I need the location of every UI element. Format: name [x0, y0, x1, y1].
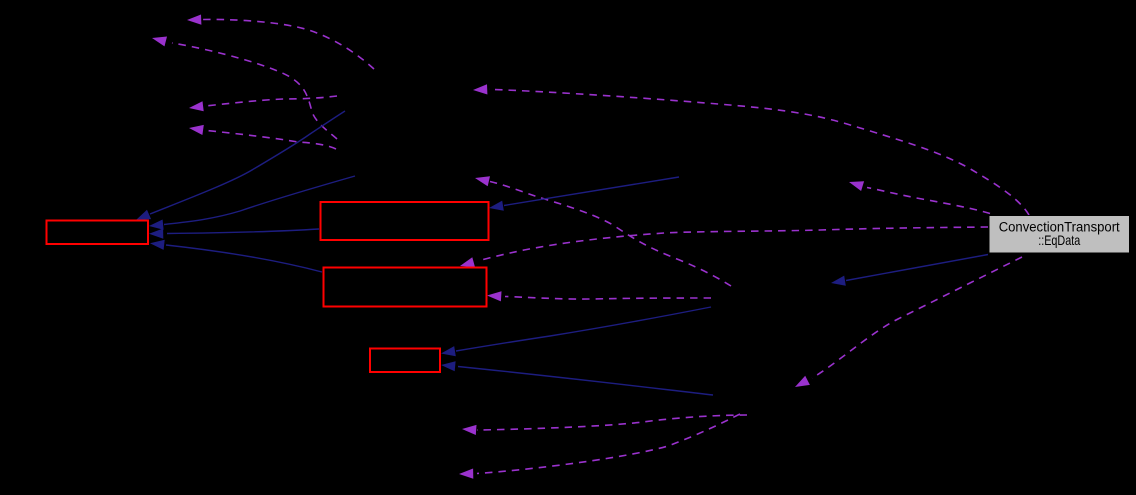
- edge I (dashed from EqData to box3 top corner): [460, 227, 988, 267]
- edge 8 (solid navy from EqData corner): [831, 255, 988, 286]
- edge E (dashed, horizontal lower): [189, 125, 336, 149]
- edge C (dashed, horizontal upper): [189, 96, 337, 111]
- edge 2 (solid navy into box1 right edge): [149, 176, 355, 230]
- node box2 (red, truncated): [321, 202, 489, 240]
- edge K (dashed horizontal into box3 right): [487, 291, 711, 301]
- edge 4 (solid navy box3 to box1): [150, 240, 322, 272]
- node box1 (red, truncated): [47, 221, 149, 245]
- edge D (solid navy curve into box1 top corner): [136, 111, 345, 220]
- node box4 (red, truncated): [370, 349, 440, 373]
- edge 5 (solid navy into box2 right edge): [489, 177, 679, 211]
- edge B (dashed, to top-left node 2): [152, 37, 337, 140]
- edge A (dashed, to top-left node): [187, 15, 374, 70]
- edge M (dashed into bottom arrow 2): [459, 414, 740, 479]
- edge 3 (solid navy box2 to box1): [149, 229, 319, 239]
- edge 7 (solid navy into box4 lower): [441, 361, 713, 395]
- node ConvectionTransport::EqData (gray): [989, 216, 1130, 254]
- node box3 (red, truncated): [324, 268, 487, 307]
- edge G (dashed diagonal center): [475, 176, 731, 286]
- edge N (dashed long arc from EqData top): [473, 84, 1029, 215]
- edge H (dashed short from EqData corner): [849, 181, 990, 213]
- svg-text:::EqData: ::EqData: [1038, 233, 1080, 248]
- edge J (dashed from EqData bottom to lower node): [795, 257, 1022, 387]
- edge 6 (solid navy into box4 upper): [441, 307, 711, 356]
- edge L (dashed into bottom arrow 1): [462, 415, 747, 435]
